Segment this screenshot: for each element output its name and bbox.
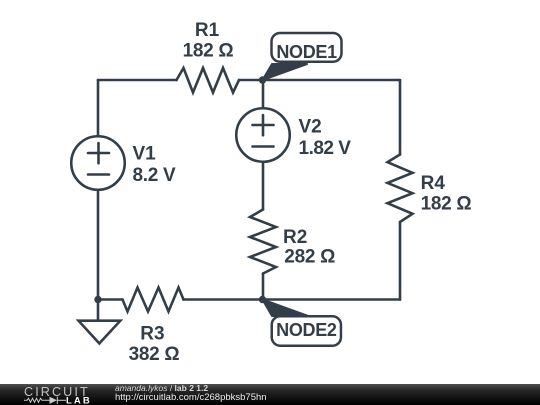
svg-text:NODE2: NODE2 xyxy=(276,320,337,340)
V2 minus sign xyxy=(253,145,274,148)
svg-text:8.2 V: 8.2 V xyxy=(133,165,176,186)
wire R1 to NODE1 junction to top-right corner xyxy=(239,79,400,82)
wire right branch upper xyxy=(399,80,402,155)
NODE1 callout box xyxy=(272,33,342,62)
svg-text:1.82 V: 1.82 V xyxy=(299,138,352,159)
wire ground stem xyxy=(97,300,100,321)
svg-text:R3: R3 xyxy=(140,323,164,344)
wire left branch upper (V1 top) xyxy=(97,80,100,136)
junction dot NODE1 xyxy=(259,76,266,83)
NODE1 callout pointer xyxy=(263,64,308,80)
voltage source V1 body xyxy=(71,136,125,190)
svg-text:LAB: LAB xyxy=(66,395,92,405)
CircuitLab logo xyxy=(0,384,100,405)
wire top from V1 to R1 xyxy=(98,79,177,82)
junction dot NODE2 xyxy=(259,296,266,303)
wire right branch lower xyxy=(399,222,402,300)
resistor R3 xyxy=(123,288,184,312)
svg-text:R1: R1 xyxy=(195,20,220,41)
svg-text:V2: V2 xyxy=(299,117,322,138)
V2 plus sign xyxy=(253,115,274,135)
svg-text:R2: R2 xyxy=(283,227,307,248)
wire left branch lower (V1 bottom) xyxy=(97,191,100,300)
wire V2 to R2 xyxy=(262,163,265,210)
NODE2 callout box xyxy=(272,316,341,346)
svg-text:NODE1: NODE1 xyxy=(276,42,337,62)
resistor R2 xyxy=(250,210,276,274)
svg-text:R4: R4 xyxy=(421,173,446,194)
resistor R1 xyxy=(177,68,240,93)
wire R2 to NODE2 junction xyxy=(262,274,265,300)
svg-text:182 Ω: 182 Ω xyxy=(421,193,472,214)
V1 plus sign xyxy=(88,143,109,163)
NODE2 callout pointer xyxy=(263,300,309,317)
V1 minus sign xyxy=(88,173,109,176)
junction dot ground node xyxy=(94,296,101,303)
wire middle branch top (NODE1 to V2) xyxy=(262,80,265,108)
voltage source V2 body xyxy=(236,108,290,162)
wire bottom from right corner to NODE2 junction xyxy=(263,298,400,301)
wire R3 to ground junction xyxy=(98,298,123,301)
svg-text:382 Ω: 382 Ω xyxy=(129,344,180,365)
ground symbol xyxy=(79,321,121,344)
svg-text:282 Ω: 282 Ω xyxy=(284,247,335,268)
resistor R4 xyxy=(388,155,413,223)
footer bar xyxy=(0,384,540,405)
svg-text:V1: V1 xyxy=(133,144,157,165)
wire NODE2 junction to R3 xyxy=(184,298,264,301)
svg-text:182 Ω: 182 Ω xyxy=(183,40,234,61)
